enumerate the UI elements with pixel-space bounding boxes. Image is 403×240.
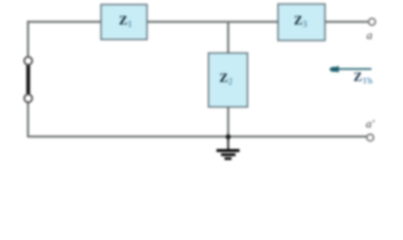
impedance Z2 xyxy=(209,53,248,107)
wire bottom node to ground xyxy=(227,137,229,149)
svg-text:a′: a′ xyxy=(366,116,375,130)
junction node at bottom xyxy=(226,134,231,139)
wire top: Z3 to terminal a xyxy=(325,21,369,23)
wire bottom xyxy=(28,136,367,138)
svg-text:ZTh: ZTh xyxy=(354,69,373,86)
wire left vertical lower xyxy=(27,102,29,138)
wire top: Z1 to Z3 xyxy=(147,21,278,23)
wire short-circuit between port terminals xyxy=(26,65,30,95)
wire middle vertical: node to Z2 xyxy=(227,22,229,53)
svg-text:a: a xyxy=(367,28,373,42)
wire Z2 to bottom node xyxy=(227,107,229,137)
impedance Z3 xyxy=(278,4,325,41)
terminal a (open circle) xyxy=(369,18,376,25)
impedance Z1 xyxy=(101,5,147,40)
port terminal upper (open circle) xyxy=(24,57,32,65)
ZTh arrow xyxy=(329,66,371,73)
wire top: left corner to Z1 xyxy=(27,21,101,23)
terminal a' (open circle) xyxy=(367,134,374,141)
wire left vertical upper xyxy=(27,21,29,57)
ground xyxy=(217,151,240,159)
port terminal lower (open circle) xyxy=(24,94,32,102)
